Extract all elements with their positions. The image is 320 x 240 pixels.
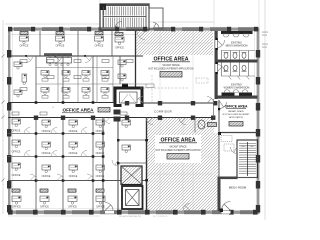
svg-text:OFFICE: OFFICE	[69, 130, 78, 133]
svg-text:OFFICE: OFFICE	[40, 206, 49, 209]
svg-text:OFFICE: OFFICE	[96, 175, 105, 178]
svg-text:OFFICE: OFFICE	[42, 175, 51, 178]
svg-text:APPLICATION: APPLICATION	[229, 116, 243, 119]
svg-text:NOT INCLUDED IN PERMIT APPLICA: NOT INCLUDED IN PERMIT APPLICATION	[156, 149, 201, 152]
svg-text:OFFICE: OFFICE	[42, 130, 51, 133]
svg-text:OFFICE AREA: OFFICE AREA	[225, 105, 248, 109]
svg-text:OFFICE: OFFICE	[96, 206, 105, 209]
svg-text:EXIT CORRIDOR: EXIT CORRIDOR	[153, 216, 168, 218]
svg-text:OFFICE: OFFICE	[69, 175, 78, 178]
svg-text:OFFICE: OFFICE	[56, 45, 65, 48]
svg-text:OFFICE: OFFICE	[95, 45, 104, 48]
svg-text:VACANT SPACE: VACANT SPACE	[162, 64, 180, 67]
svg-text:OFFICE: OFFICE	[42, 152, 51, 155]
svg-text:OFFICE: OFFICE	[12, 206, 21, 209]
svg-text:OFFICE: OFFICE	[68, 206, 77, 209]
svg-text:OFFICE: OFFICE	[12, 151, 21, 154]
svg-text:OFFICE: OFFICE	[12, 130, 21, 133]
svg-text:MEN’S WASHROOM: MEN’S WASHROOM	[226, 44, 248, 47]
svg-text:NOT INCLUDED IN PERMIT: NOT INCLUDED IN PERMIT	[223, 114, 250, 116]
svg-text:MECH. ROOM: MECH. ROOM	[229, 186, 246, 190]
svg-text:OFFICE: OFFICE	[69, 152, 78, 155]
svg-text:OFFICE: OFFICE	[115, 47, 124, 50]
svg-text:OFFICE: OFFICE	[96, 130, 105, 133]
svg-text:OFFICE AREA: OFFICE AREA	[63, 108, 95, 113]
svg-text:EXISTING: EXISTING	[231, 43, 242, 45]
svg-text:VACANT SPACE: VACANT SPACE	[169, 146, 187, 149]
svg-text:OFFICE: OFFICE	[20, 45, 29, 48]
svg-text:WOMEN’S WASHROOM: WOMEN’S WASHROOM	[224, 86, 250, 89]
svg-text:CORRIDOR: CORRIDOR	[154, 109, 172, 113]
svg-text:VACANT SPACE: VACANT SPACE	[228, 110, 244, 113]
svg-text:ELEVATOR MACHINE RM: ELEVATOR MACHINE RM	[119, 215, 141, 218]
svg-text:EXISTING: EXISTING	[231, 85, 242, 87]
svg-text:NOT INCLUDED IN PERMIT APPLICA: NOT INCLUDED IN PERMIT APPLICATION	[149, 67, 194, 70]
svg-text:OFFICE: OFFICE	[12, 174, 21, 177]
svg-text:OFFICE: OFFICE	[96, 152, 105, 155]
